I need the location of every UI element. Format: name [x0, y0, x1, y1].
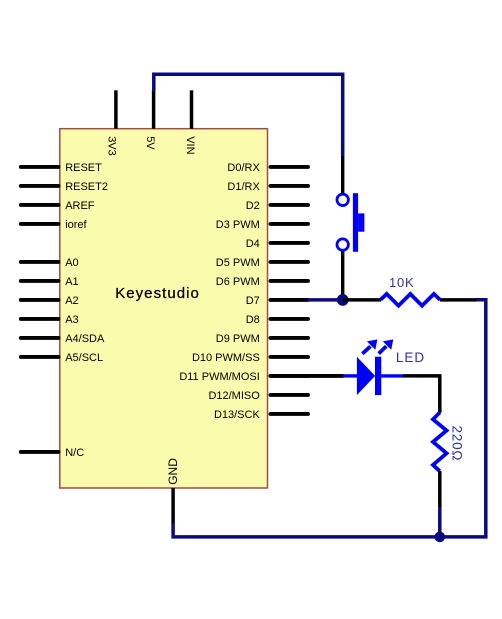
button bar — [353, 193, 358, 252]
wire right rail and ground rail — [173, 300, 486, 537]
junction node ground — [435, 532, 446, 543]
svg-text:RESET: RESET — [65, 162, 102, 174]
pin D7 — [246, 295, 308, 307]
svg-text:A0: A0 — [65, 257, 78, 269]
svg-text:D1/RX: D1/RX — [227, 181, 260, 193]
wire D7 to junction — [308, 298, 343, 302]
svg-text:D0/RX: D0/RX — [227, 162, 260, 174]
svg-text:D6 PWM: D6 PWM — [216, 276, 260, 288]
svg-text:D5 PWM: D5 PWM — [216, 257, 260, 269]
pin D5 PWM — [216, 257, 308, 269]
wire R2 to ground rail — [438, 507, 442, 537]
svg-text:VIN: VIN — [184, 136, 196, 154]
svg-text:D10 PWM/SS: D10 PWM/SS — [192, 352, 260, 364]
wire D11 to LED — [271, 374, 343, 378]
pin D10 PWM/SS — [192, 352, 308, 364]
pin 5V — [144, 90, 156, 150]
svg-text:D11 PWM/MOSI: D11 PWM/MOSI — [179, 371, 259, 383]
svg-text:A2: A2 — [65, 295, 78, 307]
svg-text:A3: A3 — [65, 314, 78, 326]
resistor R2 220ohm — [433, 412, 465, 537]
pin D3 PWM — [216, 219, 308, 231]
pin D6 PWM — [216, 276, 308, 288]
LED cathode bar — [375, 357, 381, 395]
pin GND — [166, 458, 180, 524]
svg-text:LED: LED — [396, 350, 425, 365]
button terminal bottom — [337, 239, 348, 250]
pin D9 PWM — [216, 333, 308, 345]
wire R1 left lead — [343, 298, 381, 302]
svg-text:N/C: N/C — [65, 447, 84, 459]
svg-text:3V3: 3V3 — [105, 136, 117, 156]
svg-text:D4: D4 — [246, 238, 260, 250]
svg-text:D2: D2 — [246, 200, 260, 212]
pin D13/SCK — [214, 409, 308, 421]
svg-text:D7: D7 — [246, 295, 260, 307]
pin A1 — [21, 276, 79, 288]
pin D1/RX — [227, 181, 308, 193]
pin RESET — [21, 162, 102, 174]
LED arrow 2 — [379, 339, 394, 353]
pin A4/SDA — [21, 333, 105, 345]
pin A0 — [21, 257, 79, 269]
pin D4 — [246, 238, 308, 250]
LED triangle — [357, 357, 375, 395]
svg-text:RESET2: RESET2 — [65, 181, 108, 193]
pin A2 — [21, 295, 79, 307]
LED cathode lead — [381, 374, 403, 377]
pin AREF — [21, 200, 95, 212]
svg-text:D12/MISO: D12/MISO — [208, 390, 260, 402]
R2 zigzag — [433, 412, 447, 471]
pin D8 — [246, 314, 308, 326]
resistor R1 10K — [343, 275, 477, 306]
pin D2 — [246, 200, 308, 212]
LED D1 — [271, 339, 426, 395]
R1 zigzag — [381, 294, 440, 306]
svg-text:10K: 10K — [389, 275, 415, 290]
wire 5V to pushbutton — [154, 74, 343, 156]
svg-text:GND: GND — [166, 458, 180, 485]
wire button bottom lead — [341, 251, 344, 300]
pin N/C — [21, 447, 84, 459]
wire R2 bottom lead — [438, 471, 442, 508]
LED arrow 1 — [362, 339, 377, 353]
pin ioref — [21, 219, 88, 231]
wire R1 right lead — [440, 298, 477, 302]
svg-text:D9 PWM: D9 PWM — [216, 333, 260, 345]
svg-text:A4/SDA: A4/SDA — [65, 333, 105, 345]
wire LED to R2 — [403, 376, 440, 413]
svg-text:D13/SCK: D13/SCK — [214, 409, 261, 421]
svg-text:ioref: ioref — [65, 219, 87, 231]
svg-text:D3 PWM: D3 PWM — [216, 219, 260, 231]
svg-text:220Ω: 220Ω — [450, 426, 465, 462]
wire button top lead — [341, 156, 344, 193]
pin RESET2 — [21, 181, 108, 193]
pin D11 PWM/MOSI — [179, 371, 308, 383]
LED anode lead — [343, 374, 357, 377]
svg-text:5V: 5V — [144, 136, 156, 150]
button terminal top — [337, 194, 348, 205]
board U1 Keyestudio — [60, 129, 268, 488]
svg-text:A5/SCL: A5/SCL — [65, 352, 103, 364]
pin A5/SCL — [21, 352, 103, 364]
pushbutton S1 — [337, 156, 364, 300]
pin VIN — [184, 90, 196, 154]
pin D12/MISO — [208, 390, 308, 402]
pin 3V3 — [105, 90, 117, 155]
button actuator — [358, 213, 364, 231]
svg-text:Keyestudio: Keyestudio — [115, 285, 200, 302]
pin D0/RX — [227, 162, 308, 174]
junction node D7 — [337, 294, 349, 306]
svg-text:AREF: AREF — [65, 200, 95, 212]
pin A3 — [21, 314, 79, 326]
svg-text:D8: D8 — [246, 314, 260, 326]
svg-text:A1: A1 — [65, 276, 78, 288]
